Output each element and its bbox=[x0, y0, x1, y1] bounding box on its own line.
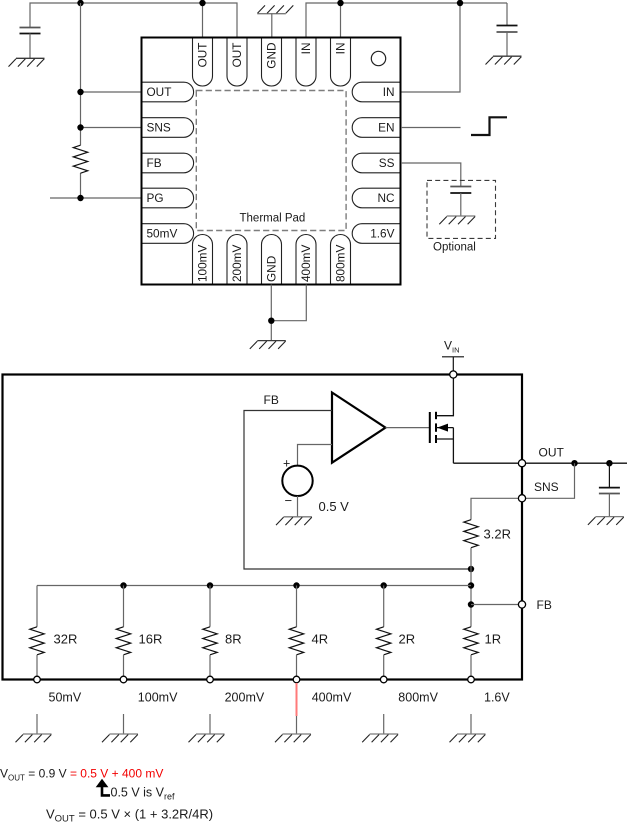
svg-text:IN: IN bbox=[383, 85, 395, 99]
junction dot at ladder bus bbox=[468, 582, 474, 588]
wire: bottom GND pin to ground bbox=[270, 285, 272, 341]
svg-text:1.6V: 1.6V bbox=[484, 691, 510, 705]
svg-text:100mV: 100mV bbox=[196, 244, 210, 282]
svg-text:3.2R: 3.2R bbox=[484, 527, 511, 542]
wire: stub to top pin 5 IN bbox=[340, 3, 342, 38]
svg-text:0.5 V: 0.5 V bbox=[319, 499, 350, 514]
junction dot at IN riser bbox=[457, 0, 463, 6]
pin PG (left 4) bbox=[143, 188, 194, 208]
svg-text:NC: NC bbox=[377, 191, 395, 205]
wire: OUT rail bbox=[522, 462, 627, 464]
junction dot OUT row bbox=[77, 89, 83, 95]
enable step waveform symbol bbox=[471, 117, 507, 135]
wire: source to OUT node bbox=[453, 462, 522, 464]
ground (below package) bbox=[250, 341, 286, 349]
node 800mV bbox=[380, 676, 387, 683]
node 50mV bbox=[34, 676, 41, 683]
junction dot PG row bbox=[77, 195, 83, 201]
pin IN (right 1) bbox=[352, 82, 399, 102]
ground stub 800mV bbox=[383, 714, 385, 734]
junction dot FB net at divider bbox=[468, 566, 474, 572]
ground stub 200mV bbox=[209, 714, 211, 734]
svg-text:SNS: SNS bbox=[147, 121, 171, 135]
junction dot GND net bbox=[268, 318, 274, 324]
capacitor C1 (input cap top-left) bbox=[20, 28, 41, 59]
pin IN (top 5) bbox=[331, 39, 351, 87]
wire: ladder top bus bbox=[37, 585, 471, 587]
pin SNS (left 2) bbox=[143, 118, 194, 138]
svg-text:1.6V: 1.6V bbox=[370, 227, 394, 241]
wire: FB feedback net bbox=[244, 411, 471, 570]
pin 800mV (bottom 5) bbox=[331, 235, 351, 284]
ground (below C2) bbox=[486, 56, 522, 64]
node VIN label bbox=[442, 339, 464, 357]
junction dots on ladder bus bbox=[120, 582, 126, 588]
package U1 outline bbox=[142, 38, 401, 285]
svg-text:200mV: 200mV bbox=[230, 244, 244, 282]
svg-text:Thermal Pad: Thermal Pad bbox=[240, 213, 306, 225]
svg-text:400mV: 400mV bbox=[312, 691, 352, 705]
wire: op-amp output to gate bbox=[386, 427, 430, 429]
svg-text:IN: IN bbox=[334, 43, 348, 55]
pin EN (right 2) bbox=[352, 118, 399, 138]
junction dot at pin5 stub bbox=[337, 0, 343, 6]
ground stub 50mV bbox=[36, 714, 38, 734]
junction dot at FB tap bbox=[468, 601, 474, 607]
node 100mV bbox=[120, 676, 127, 683]
wire: lower part of left branch bbox=[80, 173, 82, 198]
ground (50mV) bbox=[16, 734, 52, 742]
node 400mV bbox=[293, 676, 300, 683]
wire: source to ground bbox=[297, 496, 299, 517]
svg-text:EN: EN bbox=[378, 121, 394, 135]
pin NC (right 4) bbox=[352, 188, 399, 208]
pin 50mV (left 5) bbox=[143, 224, 194, 244]
resistor R2 (3.2R) bbox=[464, 520, 478, 548]
resistor R1 (SNS to PG) bbox=[73, 145, 87, 173]
wire: right IN pin riser bbox=[401, 3, 460, 92]
junction dot OUT/cap tap bbox=[606, 460, 612, 466]
svg-text:−: − bbox=[285, 493, 293, 508]
svg-text:PG: PG bbox=[147, 191, 164, 205]
svg-text:800mV: 800mV bbox=[334, 244, 348, 282]
wire: PG stub bbox=[50, 197, 142, 199]
resistor R3 (32R) bbox=[30, 586, 78, 677]
svg-text:0.5 V is Vref: 0.5 V is Vref bbox=[111, 786, 176, 802]
ground stub 100mV bbox=[123, 714, 125, 734]
ground (100mV) bbox=[102, 734, 138, 742]
junction dot on bus at left branch bbox=[77, 0, 83, 6]
wire: 3.2R down to 1R bbox=[470, 548, 472, 627]
ground (below C3) bbox=[439, 216, 475, 224]
svg-text:Optional: Optional bbox=[433, 242, 476, 254]
svg-text:OUT: OUT bbox=[196, 43, 210, 68]
junction dot SNS row bbox=[77, 124, 83, 130]
node VIN terminal circle bbox=[450, 371, 457, 378]
ground (top middle, inverted, above GND pin) bbox=[257, 5, 293, 13]
pin 100mV (bottom 1) bbox=[193, 235, 213, 284]
svg-text:VIN: VIN bbox=[444, 339, 460, 355]
wire: to SNS pin bbox=[81, 127, 143, 129]
pin IN (top 4) bbox=[296, 39, 316, 87]
svg-text:16R: 16R bbox=[139, 632, 163, 647]
wire: SNS to 3.2R bbox=[471, 498, 522, 519]
ground stub 1.6V bbox=[470, 714, 472, 734]
pin OUT (top 2) bbox=[227, 39, 247, 87]
wire: IN top bus bbox=[306, 3, 507, 38]
ground (below V1) bbox=[276, 517, 312, 525]
svg-text:400mV: 400mV bbox=[299, 244, 313, 282]
svg-text:OUT: OUT bbox=[539, 446, 565, 460]
pin GND (bottom 3) bbox=[262, 235, 282, 284]
pin 1.6V (right 5) bbox=[352, 224, 399, 244]
wire: SNS sense loop bbox=[522, 463, 575, 498]
voltage source V1 (0.5 V reference) bbox=[282, 457, 312, 509]
wire: 400mV tied to ground (red highlight) bbox=[296, 683, 298, 716]
node SNS bbox=[518, 495, 525, 502]
junction dot OUT/SNS tap bbox=[571, 460, 577, 466]
svg-text:SNS: SNS bbox=[534, 480, 559, 494]
pin OUT (left 1) bbox=[143, 82, 194, 102]
pin FB (left 3) bbox=[143, 153, 194, 173]
wire: GND pin to top ground bbox=[271, 14, 273, 38]
wire: OUT top bus bbox=[30, 3, 237, 38]
ground (below C4) bbox=[588, 517, 624, 525]
svg-text:100mV: 100mV bbox=[138, 691, 178, 705]
svg-text:8R: 8R bbox=[225, 632, 242, 647]
svg-text:1R: 1R bbox=[485, 632, 502, 647]
ground (below C1) bbox=[9, 58, 45, 66]
wire: stub to top pin 1 OUT bbox=[202, 3, 204, 38]
svg-text:VOUT = 0.5 V × (1 + 3.2R/4R): VOUT = 0.5 V × (1 + 3.2R/4R) bbox=[46, 807, 213, 825]
block boundary box bbox=[3, 375, 523, 680]
wire: VIN to block bbox=[452, 357, 454, 375]
node OUT bbox=[518, 460, 525, 467]
wire: SS pin to soft-start cap bbox=[401, 163, 461, 187]
svg-text:50mV: 50mV bbox=[147, 227, 178, 241]
svg-text:800mV: 800mV bbox=[398, 691, 438, 705]
resistor R5 (8R) bbox=[203, 586, 242, 677]
resistor R7 (2R) bbox=[377, 586, 416, 677]
resistor R8 (1R) bbox=[464, 627, 501, 677]
ground (400mV) bbox=[275, 734, 311, 742]
node 200mV bbox=[207, 676, 214, 683]
capacitor C2 (input cap top-right) bbox=[497, 3, 518, 56]
pin OUT (top 1) bbox=[193, 39, 213, 87]
pin GND (top 3) bbox=[262, 39, 282, 87]
ground (200mV) bbox=[189, 734, 225, 742]
wire: 400mV pin tied to GND bbox=[271, 285, 306, 321]
optional box (dashed) bbox=[427, 180, 496, 238]
ground (800mV) bbox=[362, 734, 398, 742]
svg-text:FB: FB bbox=[537, 598, 552, 612]
wire: FB tap to FB node bbox=[471, 604, 522, 606]
svg-text:GND: GND bbox=[265, 43, 279, 69]
svg-text:GND: GND bbox=[265, 256, 279, 282]
svg-text:+: + bbox=[283, 457, 290, 471]
capacitor C3 (soft-start, optional) bbox=[450, 187, 471, 216]
capacitor C4 (output cap) bbox=[599, 463, 620, 516]
ground (1.6V) bbox=[450, 734, 486, 742]
wire: EN pin to step input bbox=[401, 127, 461, 129]
svg-text:2R: 2R bbox=[399, 632, 416, 647]
annotation arrow (0.5 V is Vref) bbox=[96, 779, 110, 796]
resistor R4 (16R) bbox=[116, 586, 162, 677]
svg-text:IN: IN bbox=[299, 43, 313, 55]
svg-text:200mV: 200mV bbox=[225, 691, 265, 705]
node 1.6V bbox=[468, 676, 475, 683]
wire: to OUT pin bbox=[81, 91, 143, 93]
svg-text:OUT: OUT bbox=[230, 43, 244, 68]
thermal pad (dashed) bbox=[196, 91, 346, 231]
svg-text:VOUT = 0.9 V = 0.5 V + 400 mV: VOUT = 0.9 V = 0.5 V + 400 mV bbox=[0, 767, 163, 783]
svg-text:OUT: OUT bbox=[147, 85, 172, 99]
pin SS (right 3) bbox=[352, 153, 399, 173]
op-amp U2 bbox=[332, 393, 386, 463]
resistor R6 (4R) bbox=[289, 586, 328, 677]
wire: non-inverting input to reference bbox=[298, 445, 333, 466]
svg-text:32R: 32R bbox=[54, 632, 78, 647]
svg-text:FB: FB bbox=[264, 393, 279, 407]
pin 200mV (bottom 2) bbox=[227, 235, 247, 284]
svg-text:FB: FB bbox=[147, 156, 162, 170]
junction dot on bus at pin1 bbox=[199, 0, 205, 6]
pin 400mV (bottom 4) bbox=[296, 235, 316, 284]
wire: left vertical branch x=80.5 bbox=[80, 3, 82, 145]
pin 1 indicator circle bbox=[371, 51, 385, 65]
svg-text:50mV: 50mV bbox=[49, 691, 82, 705]
node FB bbox=[518, 601, 525, 608]
svg-text:4R: 4R bbox=[312, 632, 329, 647]
svg-text:SS: SS bbox=[379, 156, 395, 170]
transistor Q1 (pass NMOS) bbox=[430, 375, 454, 464]
